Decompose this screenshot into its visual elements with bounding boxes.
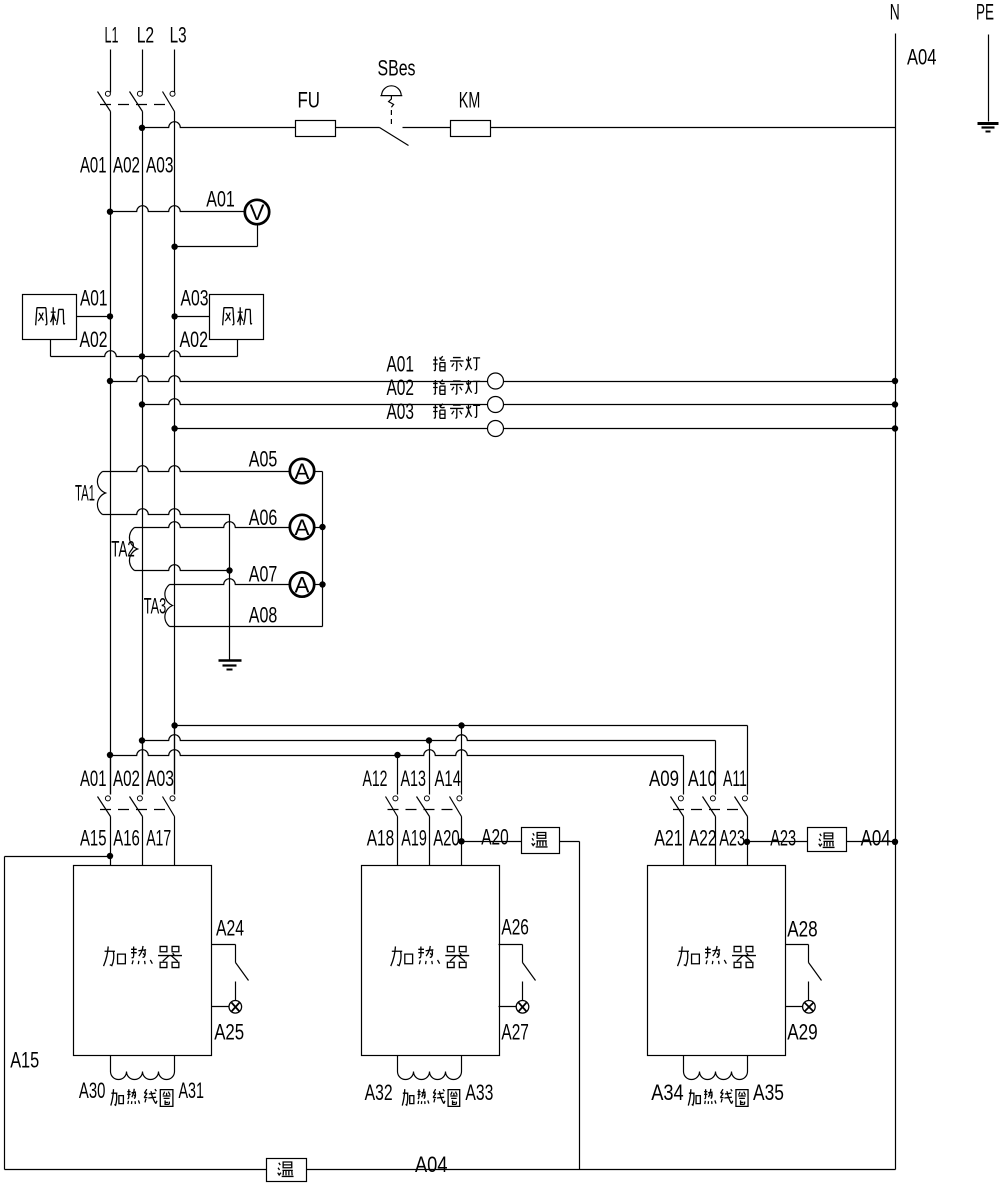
svg-text:A02: A02 xyxy=(113,766,140,791)
svg-text:A34: A34 xyxy=(651,1080,684,1105)
svg-text:A01: A01 xyxy=(387,352,415,377)
svg-text:A: A xyxy=(294,515,309,540)
svg-text:A02: A02 xyxy=(387,375,415,400)
svg-text:A03: A03 xyxy=(146,153,174,178)
svg-text:A08: A08 xyxy=(249,603,278,628)
svg-text:A28: A28 xyxy=(787,917,818,942)
svg-text:A03: A03 xyxy=(387,399,415,424)
svg-text:FU: FU xyxy=(298,88,321,113)
svg-text:A18: A18 xyxy=(367,826,395,851)
svg-text:A16: A16 xyxy=(113,826,140,851)
svg-text:A01: A01 xyxy=(206,187,235,212)
svg-text:A31: A31 xyxy=(179,1078,205,1103)
svg-text:A01: A01 xyxy=(80,286,108,311)
svg-text:A01: A01 xyxy=(80,153,107,178)
svg-text:N: N xyxy=(890,0,900,25)
svg-text:A03: A03 xyxy=(146,766,174,791)
svg-text:L3: L3 xyxy=(170,23,187,48)
svg-text:KM: KM xyxy=(459,88,481,113)
svg-text:TA2: TA2 xyxy=(111,537,135,562)
svg-text:A29: A29 xyxy=(787,1020,818,1045)
svg-text:TA1: TA1 xyxy=(75,481,95,506)
svg-text:L2: L2 xyxy=(137,23,155,48)
svg-text:A04: A04 xyxy=(907,45,937,70)
svg-text:A26: A26 xyxy=(501,915,529,940)
svg-text:A35: A35 xyxy=(753,1080,784,1105)
svg-text:A01: A01 xyxy=(80,766,107,791)
svg-text:A: A xyxy=(294,459,309,484)
svg-text:A19: A19 xyxy=(401,826,427,851)
svg-text:A04: A04 xyxy=(861,826,891,851)
svg-text:A02: A02 xyxy=(80,327,108,352)
svg-text:A25: A25 xyxy=(214,1020,244,1045)
svg-text:A24: A24 xyxy=(216,916,244,941)
svg-text:SBes: SBes xyxy=(378,56,416,81)
svg-text:A23: A23 xyxy=(719,826,745,851)
svg-text:A04: A04 xyxy=(415,1152,448,1177)
svg-text:A32: A32 xyxy=(365,1080,393,1105)
svg-text:A: A xyxy=(294,572,309,597)
svg-text:A15: A15 xyxy=(10,1048,39,1073)
svg-text:A23: A23 xyxy=(770,826,796,851)
svg-text:A30: A30 xyxy=(79,1078,106,1103)
svg-text:A02: A02 xyxy=(113,153,140,178)
svg-text:A15: A15 xyxy=(80,826,107,851)
svg-text:A13: A13 xyxy=(401,766,427,791)
svg-text:A27: A27 xyxy=(501,1020,529,1045)
svg-text:A22: A22 xyxy=(689,826,717,851)
svg-text:A20: A20 xyxy=(481,825,509,850)
svg-text:A02: A02 xyxy=(180,327,209,352)
svg-text:V: V xyxy=(249,200,264,225)
svg-text:A12: A12 xyxy=(363,766,388,791)
svg-text:A11: A11 xyxy=(723,766,747,791)
svg-text:A33: A33 xyxy=(465,1080,493,1105)
svg-text:A21: A21 xyxy=(654,826,683,851)
svg-text:A06: A06 xyxy=(249,505,278,530)
svg-text:A09: A09 xyxy=(649,766,679,791)
svg-text:PE: PE xyxy=(976,0,994,25)
svg-text:A10: A10 xyxy=(688,766,717,791)
svg-text:A03: A03 xyxy=(181,286,209,311)
svg-text:A07: A07 xyxy=(249,561,278,586)
svg-text:A14: A14 xyxy=(435,766,462,791)
svg-text:A20: A20 xyxy=(433,826,460,851)
svg-text:A17: A17 xyxy=(146,826,171,851)
svg-text:L1: L1 xyxy=(105,23,119,48)
svg-text:TA3: TA3 xyxy=(144,594,167,619)
svg-text:A05: A05 xyxy=(249,447,278,472)
